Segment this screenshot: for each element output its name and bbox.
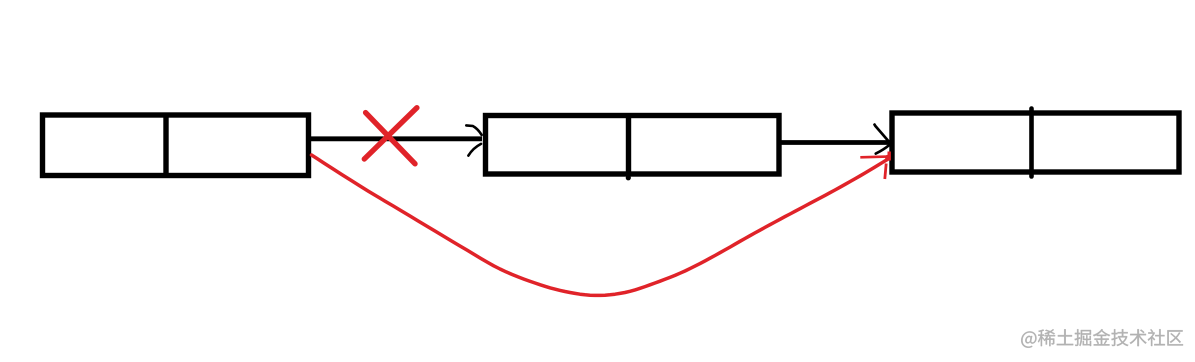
- node 2 divider: [626, 114, 631, 177]
- node 1 box: [43, 115, 309, 176]
- arrowhead at node 2 (lower barb): [468, 144, 481, 156]
- red arrowhead vertical barb: [885, 164, 886, 180]
- arrowhead at node 3 (lower barb): [876, 145, 889, 153]
- red arrowhead tip blob: [885, 155, 890, 160]
- red arrowhead tip upstroke: [888, 152, 891, 161]
- watermark text: [1021, 329, 1183, 348]
- node 2 box: [486, 116, 780, 175]
- red bypass curve node1 to node3: [312, 155, 889, 295]
- wire node2 to node3: [781, 140, 890, 145]
- red X stroke 2: [364, 108, 417, 159]
- node 1 divider: [163, 113, 168, 179]
- node 3 divider: [1029, 109, 1034, 177]
- arrowhead at node 3 (upper barb with curl): [875, 125, 890, 142]
- arrowhead at node 2 (upper barb): [466, 125, 481, 134]
- red arrowhead horizontal barb: [860, 155, 887, 158]
- red X stroke 1: [366, 113, 415, 164]
- node 2 divider bottom nub: [626, 175, 631, 180]
- node 3 box: [892, 113, 1179, 172]
- wire node1 to node2: [311, 136, 482, 141]
